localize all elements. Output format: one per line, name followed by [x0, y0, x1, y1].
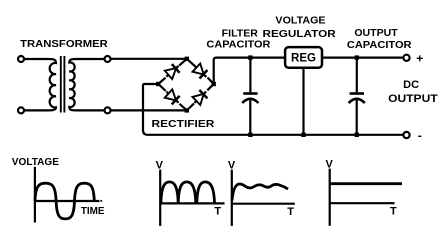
svg-text:T: T	[390, 206, 397, 218]
capacitor C1 curved plate	[242, 99, 258, 103]
plot4 V axis	[329, 169, 331, 226]
capacitor C1 (filter) lead top	[249, 59, 251, 92]
node C2 top	[355, 55, 359, 59]
diode D1 (bridge top-left)	[163, 62, 183, 82]
svg-text:TIME: TIME	[81, 206, 105, 217]
diode D4 (bridge bottom-right)	[190, 87, 210, 107]
plot1 axis end dot	[100, 200, 102, 202]
plot4 DC line	[330, 182, 402, 185]
wire primary top	[24, 58, 49, 60]
svg-text:DC: DC	[403, 79, 419, 91]
node left vertex	[156, 82, 160, 86]
plot1 sine wave	[35, 183, 94, 219]
svg-text:OUTPUT: OUTPUT	[354, 28, 397, 39]
plot2 T axis	[160, 202, 224, 204]
svg-text:VOLTAGE: VOLTAGE	[275, 16, 325, 27]
voltage regulator U1 ground pin	[302, 68, 304, 133]
svg-text:REG: REG	[291, 51, 316, 65]
terminal (secondary bottom)	[105, 107, 111, 113]
node right vertex	[212, 82, 216, 86]
node top vertex	[185, 57, 189, 61]
diode D3 (bridge bottom-left)	[163, 87, 183, 107]
wire secondary top	[76, 58, 105, 60]
voltage regulator U1 box	[285, 47, 322, 68]
capacitor C1 flat plate	[243, 92, 257, 95]
svg-text:+: +	[416, 51, 423, 65]
wire minus: left vertex down to bottom rail	[143, 84, 158, 135]
svg-text:-: -	[418, 129, 422, 143]
svg-text:V: V	[228, 159, 236, 171]
plot1 T axis	[35, 200, 100, 202]
terminal DC minus	[403, 132, 409, 138]
svg-text:V: V	[326, 158, 334, 170]
wire AC top to bridge	[111, 58, 187, 60]
plot2 V axis	[159, 170, 161, 226]
svg-text:T: T	[214, 206, 221, 218]
svg-text:OUTPUT: OUTPUT	[388, 93, 438, 105]
terminal DC plus	[403, 55, 409, 61]
wire secondary bottom	[76, 109, 105, 111]
svg-text:TRANSFORMER: TRANSFORMER	[20, 39, 109, 50]
node regulator ground	[301, 133, 305, 137]
terminal (primary bottom)	[18, 107, 24, 113]
svg-text:T: T	[287, 206, 294, 218]
plot4 T axis	[330, 202, 395, 204]
terminal (secondary top)	[105, 56, 111, 62]
terminal (primary top)	[18, 56, 24, 62]
svg-text:FILTER: FILTER	[222, 28, 259, 39]
wire AC bottom to bridge	[111, 109, 187, 111]
wire bottom rail	[148, 134, 404, 136]
capacitor C2 curved plate	[349, 99, 365, 103]
transformer T1 core	[61, 56, 65, 113]
capacitor C2 flat plate	[350, 92, 364, 95]
node C2 bottom	[355, 133, 359, 137]
plot3 ripple wave	[232, 184, 288, 201]
plot3 T axis	[232, 203, 295, 205]
capacitor C2 (output) lead top	[356, 59, 358, 92]
svg-text:RECTIFIER: RECTIFIER	[152, 119, 216, 130]
capacitor C2 lead bottom	[356, 99, 358, 133]
wire primary bottom	[24, 109, 49, 111]
svg-text:CAPACITOR: CAPACITOR	[206, 40, 271, 51]
transformer T1 secondary winding	[69, 59, 75, 110]
bridge edge wires	[158, 59, 213, 111]
svg-text:CAPACITOR: CAPACITOR	[347, 40, 413, 51]
diode D2 (bridge top-right)	[190, 61, 210, 81]
svg-text:VOLTAGE: VOLTAGE	[12, 157, 60, 168]
node bottom vertex	[185, 108, 189, 112]
plot3 V axis	[231, 170, 233, 226]
node C1 top	[248, 55, 252, 59]
wire plus: right vertex up to top rail	[214, 58, 404, 84]
transformer T1 primary winding	[50, 59, 57, 110]
plot1 V axis	[34, 167, 36, 223]
node C1 bottom	[248, 133, 252, 137]
capacitor C1 lead bottom	[249, 99, 251, 133]
svg-text:REGULATOR: REGULATOR	[263, 29, 337, 40]
plot2 rectified humps	[161, 182, 215, 204]
